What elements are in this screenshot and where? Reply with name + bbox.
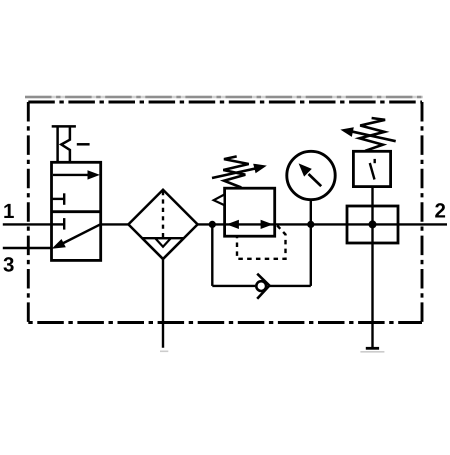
regulator R1 adjustment arrow: [212, 164, 267, 178]
valve V1 bottom-cell blocked port: [52, 218, 65, 230]
pressure gauge G1: [287, 151, 335, 199]
valve V1 top-cell blocked port: [52, 193, 65, 205]
pressure switch PS1 contact lever: [370, 163, 375, 180]
wire port 3: [3, 247, 52, 249]
pressure switch PS1 adjustment arrow: [340, 127, 395, 141]
on-off valve V1 body: [52, 162, 101, 260]
gauge G1 needle: [299, 163, 322, 186]
port label 3: [3, 257, 13, 272]
valve V1 manual actuator: [52, 126, 90, 162]
wire pressure switch to branch: [371, 186, 373, 225]
regulator R1 adjustment spring: [223, 156, 248, 187]
junction node C (branch point): [369, 220, 377, 228]
vent faint shadow mark: [360, 351, 384, 353]
junction node B (gauge / bypass): [307, 221, 314, 228]
filter F1 diamond: [128, 190, 197, 259]
filter F1 inner triangle sides: [142, 238, 184, 259]
filter F1 drain line: [162, 259, 164, 348]
port label 2: [435, 203, 445, 217]
pressure switch PS1 contact tick: [374, 159, 376, 163]
port label 1: [4, 204, 14, 218]
valve V1 bottom-cell exhaust path arrow: [52, 224, 101, 249]
wire valve to filter: [101, 223, 129, 225]
enclosure dash-dot border: [28, 102, 422, 323]
filter F1 dashed element line: [162, 191, 164, 238]
bypass riser wire: [310, 224, 312, 286]
wire filter to port 2 (main line): [198, 223, 447, 225]
bypass wire check valve to riser: [269, 285, 310, 287]
wire port 1: [3, 223, 52, 225]
gray shadow line above enclosure top: [25, 96, 423, 99]
branching module body: [347, 206, 398, 243]
vent end bar: [366, 347, 379, 350]
filter F1 separator chord: [142, 237, 184, 239]
pressure switch PS1 spring: [360, 118, 386, 151]
bypass wire down from node A: [211, 224, 213, 286]
valve V1 top-cell flow arrow: [53, 170, 100, 179]
regulator R1 internal arrows: [227, 220, 274, 229]
bypass wire to check valve: [212, 285, 255, 287]
filter drain faint end mark: [160, 350, 168, 352]
gauge stem wire: [310, 200, 312, 224]
junction node A (regulator inlet branch): [209, 221, 216, 228]
regulator R1 body: [225, 188, 275, 236]
filter F1 condensate triangle: [155, 238, 171, 247]
regulator R1 relief triangle: [214, 194, 225, 205]
regulator R1 dashed pilot line: [237, 226, 286, 259]
check valve CV1: [256, 274, 269, 299]
pressure switch PS1 body: [353, 151, 390, 186]
vent wire down from branch: [371, 224, 373, 348]
